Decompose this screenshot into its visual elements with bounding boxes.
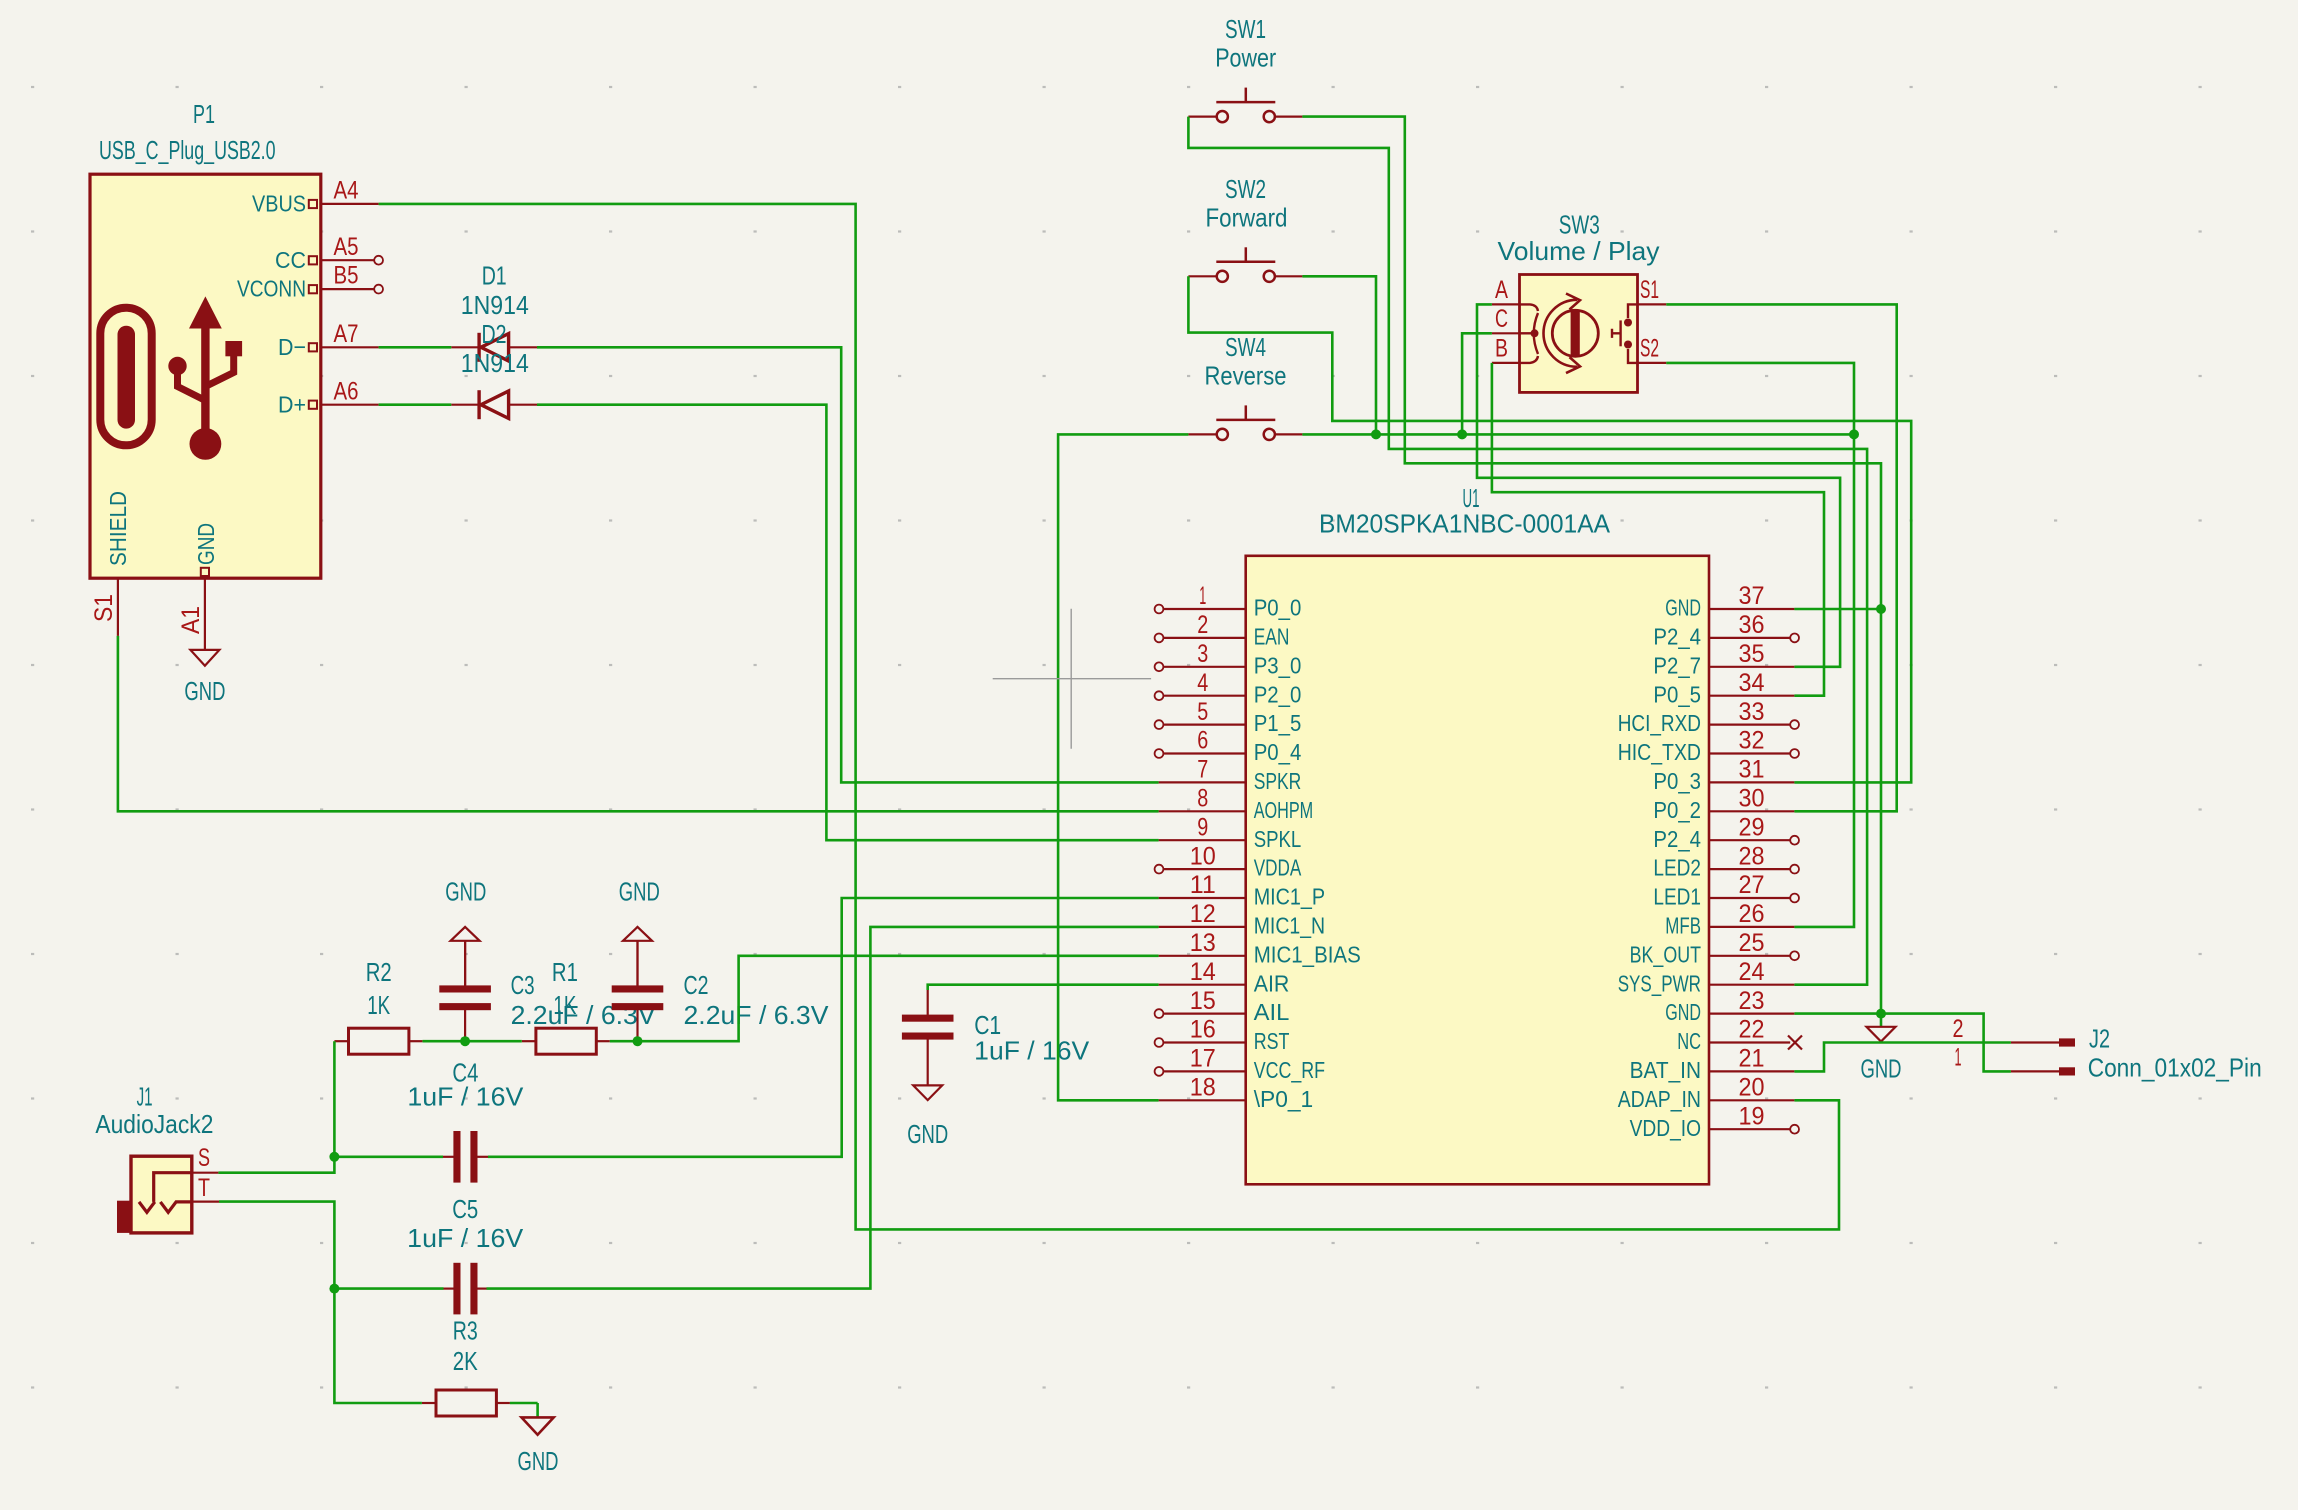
pin 1 P0_0 (U1) — [1155, 582, 1302, 620]
svg-text:3: 3 — [1197, 640, 1208, 668]
wire SW4 pin left to P0_1 pin18 — [1058, 434, 1188, 1100]
svg-text:A1: A1 — [177, 606, 205, 634]
svg-text:GND: GND — [1665, 999, 1701, 1025]
pin 30 P0_2 (U1) — [1653, 785, 1794, 823]
pin 10 VDDA (U1) — [1155, 842, 1302, 880]
svg-text:BAT_IN: BAT_IN — [1630, 1057, 1701, 1083]
wire AIR pin14 to C1 — [928, 985, 1159, 990]
svg-text:1N914: 1N914 — [461, 290, 529, 320]
svg-text:A4: A4 — [334, 177, 359, 205]
pin 20 ADAP_IN (U1) — [1618, 1074, 1795, 1112]
svg-text:14: 14 — [1190, 958, 1216, 986]
pin 5 P1_5 (U1) — [1155, 698, 1302, 736]
junction — [1876, 604, 1886, 614]
svg-text:1: 1 — [1199, 582, 1206, 610]
svg-text:Reverse: Reverse — [1205, 360, 1287, 390]
svg-text:8: 8 — [1197, 785, 1208, 813]
junction — [1849, 429, 1859, 439]
pin 28 LED2 (U1) — [1653, 842, 1799, 880]
pin 1 (J2) — [2011, 1070, 2059, 1072]
svg-text:2.2uF / 6.3V: 2.2uF / 6.3V — [684, 1000, 830, 1030]
svg-text:VBUS: VBUS — [252, 191, 306, 217]
svg-text:P0_0: P0_0 — [1254, 595, 1302, 621]
svg-text:C3: C3 — [511, 970, 535, 1000]
svg-text:D−: D− — [278, 334, 306, 360]
switch SW1 Power — [1188, 88, 1302, 123]
svg-text:EAN: EAN — [1254, 624, 1290, 650]
pin 37 GND (U1) — [1665, 582, 1794, 620]
wire SW3 C to MFB net — [1462, 333, 1492, 434]
svg-text:SW2: SW2 — [1225, 174, 1266, 204]
svg-text:1K: 1K — [367, 990, 390, 1020]
svg-text:GND: GND — [193, 523, 219, 565]
svg-text:6: 6 — [1197, 727, 1208, 755]
capacitor C2 2.2uF / 6.3V — [612, 941, 829, 1041]
svg-text:J2: J2 — [2089, 1024, 2110, 1054]
wire VBUS A4 to ADAP_IN pin20 — [379, 204, 1839, 1230]
svg-text:GND: GND — [184, 676, 225, 706]
pin 3 P3_0 (U1) — [1155, 640, 1302, 678]
svg-text:36: 36 — [1739, 611, 1765, 639]
svg-text:19: 19 — [1739, 1102, 1765, 1130]
pin C (SW3) — [1492, 332, 1521, 334]
pin 21 BAT_IN (U1) — [1630, 1045, 1795, 1083]
capacitor C3 2.2uF / 6.3V — [439, 941, 656, 1041]
pin 2 EAN (U1) — [1155, 611, 1290, 649]
ground symbol GND (right of R3) — [518, 1403, 559, 1476]
svg-text:D+: D+ — [278, 391, 306, 417]
svg-text:P0_4: P0_4 — [1254, 739, 1302, 765]
svg-text:R1: R1 — [552, 957, 578, 987]
ground symbol GND (pin 23 net) — [1861, 1014, 1902, 1084]
svg-text:MIC1_P: MIC1_P — [1254, 884, 1325, 910]
svg-text:AOHPM: AOHPM — [1254, 797, 1314, 823]
svg-text:1N914: 1N914 — [461, 348, 529, 378]
svg-text:D1: D1 — [482, 261, 507, 291]
pin 6 P0_4 (U1) — [1155, 727, 1302, 765]
capacitor C5 1uF / 16V — [407, 1194, 524, 1314]
wire SW1 pin left to SYS_PWR pin24 — [1188, 117, 1867, 985]
svg-text:1uF / 16V: 1uF / 16V — [974, 1036, 1090, 1066]
svg-text:SW3: SW3 — [1559, 209, 1600, 239]
svg-text:HIC_TXD: HIC_TXD — [1618, 739, 1701, 765]
wire C5 to MIC1_N pin12 — [487, 927, 1159, 1289]
wire SW3 S2 to MFB net — [1666, 363, 1854, 435]
svg-text:VDDA: VDDA — [1254, 855, 1302, 881]
svg-text:A7: A7 — [334, 320, 359, 348]
wire GND net to J2 pin1 — [1881, 1014, 2011, 1072]
ground symbol GND (P1 A1) — [184, 650, 225, 706]
svg-text:T: T — [198, 1174, 210, 1202]
svg-text:28: 28 — [1739, 842, 1765, 870]
diode D2 1N914 — [451, 319, 537, 419]
wire C4 to MIC1_P pin11 — [488, 898, 1159, 1157]
svg-text:SW1: SW1 — [1225, 14, 1266, 44]
pin 17 VCC_RF (U1) — [1155, 1045, 1326, 1083]
svg-text:10: 10 — [1190, 842, 1216, 870]
svg-text:P2_7: P2_7 — [1653, 652, 1701, 678]
svg-text:P1_5: P1_5 — [1254, 710, 1302, 736]
pin 33 HCI_RXD (U1) — [1618, 698, 1799, 736]
svg-text:GND: GND — [1861, 1054, 1902, 1084]
svg-text:BK_OUT: BK_OUT — [1630, 941, 1701, 967]
pin S2 (SW3) — [1636, 362, 1666, 364]
svg-text:A6: A6 — [334, 377, 359, 405]
svg-text:P2_4: P2_4 — [1653, 624, 1701, 650]
svg-text:SHIELD: SHIELD — [105, 491, 131, 566]
wire R1/C2 node to MIC1_BIAS pin13 — [610, 956, 1159, 1041]
pin 2 (J2) — [2011, 1041, 2059, 1043]
svg-text:S2: S2 — [1640, 334, 1659, 362]
svg-text:B5: B5 — [334, 262, 359, 290]
svg-text:GND: GND — [1665, 595, 1701, 621]
svg-text:29: 29 — [1739, 813, 1765, 841]
svg-text:GND: GND — [445, 876, 486, 906]
svg-text:S1: S1 — [90, 594, 118, 622]
svg-text:2K: 2K — [453, 1346, 479, 1376]
svg-text:VDD_IO: VDD_IO — [1630, 1115, 1701, 1141]
svg-text:12: 12 — [1190, 900, 1216, 928]
svg-text:LED1: LED1 — [1653, 884, 1701, 910]
svg-text:MIC1_N: MIC1_N — [1254, 913, 1325, 939]
pin 7 SPKR (U1) — [1159, 756, 1302, 794]
pin S1 (SW3) — [1636, 303, 1666, 305]
pin T (J1) — [192, 1200, 219, 1202]
svg-text:AIR: AIR — [1254, 970, 1290, 996]
wire SHIELD to AOHPM pin8 — [118, 636, 1159, 811]
svg-text:C2: C2 — [684, 970, 709, 1000]
pin 13 MIC1_BIAS (U1) — [1159, 929, 1361, 967]
wire MFB riser to pin26 — [1794, 434, 1854, 927]
svg-text:SYS_PWR: SYS_PWR — [1618, 970, 1701, 996]
pin 18 \P0_1 (U1) — [1159, 1074, 1314, 1112]
pin 15 AIL (U1) — [1155, 987, 1290, 1025]
svg-text:37: 37 — [1739, 582, 1765, 610]
svg-text:1uF / 16V: 1uF / 16V — [407, 1082, 524, 1112]
svg-text:VCONN: VCONN — [237, 276, 306, 302]
svg-text:MIC1_BIAS: MIC1_BIAS — [1254, 941, 1361, 967]
svg-text:USB_C_Plug_USB2.0: USB_C_Plug_USB2.0 — [99, 135, 276, 165]
svg-text:GND: GND — [619, 876, 660, 906]
svg-text:5: 5 — [1197, 698, 1208, 726]
wire MFB net SW4 to riser — [1302, 433, 1854, 436]
pin 29 P2_4 (U1) — [1653, 813, 1799, 851]
wire node R2 left — [333, 1041, 336, 1157]
junction — [633, 1036, 643, 1046]
svg-text:25: 25 — [1739, 929, 1765, 957]
svg-text:24: 24 — [1739, 958, 1765, 986]
wire D- to SPKR pin7 — [379, 347, 1159, 782]
pin 27 LED1 (U1) — [1653, 871, 1799, 909]
wire SW3 A to P2_7 pin35 — [1477, 304, 1840, 666]
pin 22 NC (U1) — [1677, 1016, 1802, 1054]
pin 11 MIC1_P (U1) — [1159, 871, 1326, 909]
svg-text:\P0_1: \P0_1 — [1254, 1086, 1314, 1112]
wire C4 left — [334, 1156, 443, 1159]
wire SW1 pin right to GND net — [1302, 117, 1881, 1014]
wire C5 left — [334, 1287, 443, 1290]
svg-text:B: B — [1495, 334, 1508, 362]
wire R3 right to GND — [510, 1402, 538, 1405]
svg-text:P0_3: P0_3 — [1653, 768, 1701, 794]
svg-text:P0_2: P0_2 — [1653, 797, 1701, 823]
svg-text:11: 11 — [1190, 871, 1216, 899]
wire J1 S to C4 node — [218, 1157, 334, 1173]
svg-text:30: 30 — [1739, 785, 1765, 813]
svg-text:1uF / 16V: 1uF / 16V — [407, 1223, 524, 1253]
switch SW3 Volume / Play — [1492, 209, 1666, 392]
svg-text:31: 31 — [1739, 756, 1765, 784]
pin B (SW3) — [1492, 362, 1521, 364]
svg-text:VCC_RF: VCC_RF — [1254, 1057, 1325, 1083]
wire SW2 pin left to P0_3 pin31 — [1188, 276, 1911, 782]
pin A (SW3) — [1492, 303, 1521, 305]
wire BAT_IN pin21 to J2 pin2 — [1794, 1043, 2011, 1072]
svg-text:34: 34 — [1739, 669, 1765, 697]
svg-text:Conn_01x02_Pin: Conn_01x02_Pin — [2088, 1052, 2262, 1082]
pin 35 P2_7 (U1) — [1653, 640, 1794, 678]
pin 31 P0_3 (U1) — [1653, 756, 1794, 794]
svg-text:33: 33 — [1739, 698, 1765, 726]
junction — [460, 1036, 470, 1046]
svg-text:Forward: Forward — [1206, 202, 1288, 232]
pin 19 VDD_IO (U1) — [1630, 1102, 1799, 1140]
svg-text:SPKL: SPKL — [1254, 826, 1302, 852]
junction — [1457, 429, 1467, 439]
svg-text:J1: J1 — [137, 1081, 153, 1111]
svg-text:18: 18 — [1190, 1074, 1216, 1102]
svg-text:9: 9 — [1197, 813, 1208, 841]
svg-text:A: A — [1495, 276, 1508, 304]
wire J1 T to C5 and R3 — [219, 1202, 422, 1403]
capacitor C4 1uF / 16V — [407, 1058, 524, 1183]
wire D+ to SPKL pin9 — [379, 405, 1159, 841]
pin 26 MFB (U1) — [1665, 900, 1794, 938]
svg-text:35: 35 — [1739, 640, 1765, 668]
resistor R3 2K — [422, 1316, 510, 1417]
svg-text:SPKR: SPKR — [1254, 768, 1302, 794]
svg-text:D2: D2 — [482, 319, 507, 349]
svg-text:Volume / Play: Volume / Play — [1498, 236, 1660, 266]
svg-text:2: 2 — [1197, 611, 1208, 639]
pin 9 SPKL (U1) — [1159, 813, 1302, 851]
svg-text:C: C — [1495, 305, 1508, 333]
junction — [1371, 429, 1381, 439]
switch SW2 Forward — [1188, 247, 1302, 282]
svg-text:A5: A5 — [334, 233, 359, 261]
svg-text:S1: S1 — [1640, 276, 1659, 304]
wire GND stub pin37 — [1794, 608, 1881, 611]
svg-text:P2_4: P2_4 — [1653, 826, 1701, 852]
svg-text:P2_0: P2_0 — [1254, 681, 1302, 707]
svg-text:P3_0: P3_0 — [1254, 652, 1302, 678]
wire GND stub pin23 — [1794, 1012, 1881, 1015]
svg-text:2: 2 — [1953, 1015, 1964, 1043]
pin 8 AOHPM (U1) — [1159, 785, 1314, 823]
svg-text:CC: CC — [275, 247, 306, 273]
connector J1 AudioJack2 — [95, 1081, 219, 1233]
svg-text:C5: C5 — [452, 1194, 478, 1224]
svg-text:P1: P1 — [193, 99, 215, 129]
wire SW3 S1 to P0_2 pin30 — [1666, 304, 1896, 811]
svg-text:AIL: AIL — [1254, 999, 1290, 1025]
ground symbol GND (above C2) — [619, 876, 660, 985]
pin 24 SYS_PWR (U1) — [1618, 958, 1795, 996]
junction — [329, 1152, 339, 1162]
svg-text:15: 15 — [1190, 987, 1216, 1015]
ground symbol GND (below C1) — [907, 1085, 948, 1149]
svg-text:R3: R3 — [453, 1316, 478, 1346]
pin 25 BK_OUT (U1) — [1630, 929, 1799, 967]
pin S (J1) — [192, 1172, 219, 1174]
pin 23 GND (U1) — [1665, 987, 1794, 1025]
connector J2 Conn_01x02_Pin — [1953, 1015, 2262, 1083]
capacitor C1 1uF / 16V — [902, 990, 1090, 1085]
svg-text:27: 27 — [1739, 871, 1765, 899]
diode D1 1N914 — [451, 261, 537, 362]
pin 16 RST (U1) — [1155, 1016, 1290, 1054]
svg-text:26: 26 — [1739, 900, 1765, 928]
junction — [1876, 1009, 1886, 1019]
svg-text:MFB: MFB — [1665, 913, 1701, 939]
svg-text:16: 16 — [1190, 1016, 1216, 1044]
svg-text:32: 32 — [1739, 727, 1765, 755]
svg-text:23: 23 — [1739, 987, 1765, 1015]
pin 14 AIR (U1) — [1159, 958, 1290, 996]
pin 12 MIC1_N (U1) — [1159, 900, 1326, 938]
svg-text:HCI_RXD: HCI_RXD — [1618, 710, 1701, 736]
svg-text:Power: Power — [1215, 43, 1276, 73]
svg-text:GND: GND — [518, 1446, 559, 1476]
connector P1 USB_C_Plug_USB2.0 — [90, 99, 383, 650]
svg-text:ADAP_IN: ADAP_IN — [1618, 1086, 1701, 1112]
svg-text:LED2: LED2 — [1653, 855, 1701, 881]
cursor crosshair — [993, 609, 1151, 749]
resistor R1 1K — [522, 957, 610, 1054]
svg-text:SW4: SW4 — [1225, 332, 1266, 362]
resistor R2 1K — [334, 957, 422, 1054]
svg-text:7: 7 — [1197, 756, 1208, 784]
wire SW2 pin right to MFB net — [1302, 276, 1376, 434]
pin 4 P2_0 (U1) — [1155, 669, 1302, 707]
switch SW4 Reverse — [1188, 405, 1302, 440]
svg-text:NC: NC — [1677, 1028, 1701, 1054]
junction — [329, 1284, 339, 1294]
svg-text:P0_5: P0_5 — [1653, 681, 1701, 707]
svg-text:17: 17 — [1190, 1045, 1216, 1073]
ground symbol GND (above C3) — [445, 876, 486, 985]
IC U1 BM20SPKA1NBC-0001AA — [1246, 483, 1709, 1184]
svg-text:AudioJack2: AudioJack2 — [95, 1109, 213, 1139]
svg-text:13: 13 — [1190, 929, 1216, 957]
svg-text:R2: R2 — [366, 957, 392, 987]
svg-text:BM20SPKA1NBC-0001AA: BM20SPKA1NBC-0001AA — [1319, 508, 1611, 538]
svg-text:20: 20 — [1739, 1074, 1765, 1102]
svg-text:S: S — [198, 1144, 210, 1172]
pin 36 P2_4 (U1) — [1653, 611, 1799, 649]
svg-text:GND: GND — [907, 1119, 948, 1149]
wire R2 to R1 — [423, 1040, 522, 1043]
svg-text:RST: RST — [1254, 1028, 1290, 1054]
svg-text:21: 21 — [1739, 1045, 1765, 1073]
wire SW3 B to P0_5 pin34 — [1492, 363, 1824, 696]
svg-text:1: 1 — [1955, 1044, 1962, 1072]
svg-text:22: 22 — [1739, 1016, 1765, 1044]
svg-text:4: 4 — [1197, 669, 1208, 697]
pin 32 HIC_TXD (U1) — [1618, 727, 1799, 765]
pin 34 P0_5 (U1) — [1653, 669, 1794, 707]
